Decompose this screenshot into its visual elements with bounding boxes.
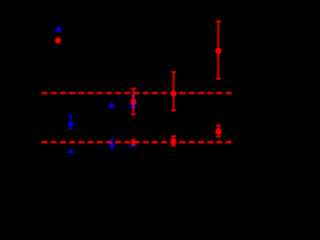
lower dashed reference line — [42, 141, 232, 143]
upper dashed reference line — [42, 92, 232, 94]
red point R4 marker (small, mostly hidden by dashed line) — [131, 140, 135, 144]
red point R2 error bar — [171, 72, 176, 110]
legend blue triangle — [55, 25, 62, 31]
blue triangle B3 error bar — [131, 96, 135, 107]
blue triangle B4 error bar — [111, 140, 114, 148]
red point R4 error bar — [131, 140, 135, 144]
red point R5 error bar — [171, 136, 176, 145]
red point R6 marker — [215, 128, 221, 134]
blue triangle B5 marker (flat base visible below red point) — [129, 145, 136, 147]
blue triangle B1 error bar — [68, 116, 72, 129]
legend red circle — [55, 37, 61, 43]
blue triangle B2 marker — [108, 102, 115, 107]
red point R2 marker — [171, 91, 177, 97]
red point R6 error bar — [216, 125, 221, 136]
red point R1 error bar — [216, 21, 221, 79]
red point R5 marker — [170, 138, 176, 144]
red point R3 error bar — [131, 89, 136, 115]
red point R1 marker — [215, 48, 221, 54]
blue marker B6 (flat bar with upper nub) — [67, 148, 74, 153]
blue triangle B4 marker — [109, 142, 115, 147]
red point R3 marker — [131, 98, 137, 104]
blue triangle B1 marker — [67, 120, 74, 125]
blue triangle B3 marker (behind red circle) — [129, 100, 137, 105]
